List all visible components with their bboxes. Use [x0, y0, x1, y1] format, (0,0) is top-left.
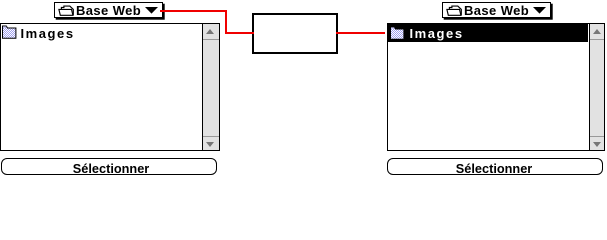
selected item label "Images": [410, 26, 464, 41]
scrollbar up arrow: [590, 24, 604, 40]
selected row (highlighted): [388, 24, 588, 42]
right file list panel: [387, 23, 605, 151]
open-folder icon: [446, 5, 463, 16]
scrollbar: [202, 24, 220, 150]
scrollbar: [589, 24, 604, 150]
open-folder icon: [58, 5, 75, 16]
folder icon "Images" (selected): [390, 26, 405, 41]
wire: red vertical segment: [225, 10, 227, 34]
popup label: [464, 3, 529, 18]
dropdown arrow: [533, 7, 547, 14]
wire: red horizontal into junction box: [225, 32, 254, 34]
popup menu "Base Web" (right): [442, 2, 551, 18]
scrollbar down arrow: [590, 136, 604, 150]
popup label: [76, 3, 141, 18]
dropdown arrow: [145, 7, 159, 14]
junction box (empty rectangle between panels): [252, 13, 338, 55]
popup menu "Base Web" (left): [54, 2, 163, 18]
left file list panel: [0, 23, 220, 151]
button Sélectionner (right): [387, 158, 603, 175]
folder icon "Images": [2, 25, 17, 40]
wire: red segment from left popup to corner: [160, 10, 227, 12]
scrollbar up arrow: [203, 24, 220, 40]
scrollbar down arrow: [203, 136, 220, 150]
wire: red segment from junction box to right list: [336, 32, 385, 34]
list item label "Images": [21, 26, 75, 41]
button Sélectionner (left): [1, 158, 218, 175]
